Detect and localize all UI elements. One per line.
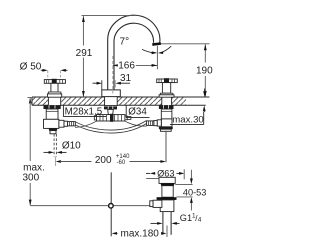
spout base cylinder (Ø34)	[102, 90, 121, 97]
label M28x1,5	[63, 105, 106, 117]
spout riser tube	[108, 15, 160, 90]
svg-text:40-53: 40-53	[183, 188, 207, 198]
svg-text:7°: 7°	[120, 37, 130, 48]
pull rod line	[110, 172, 112, 236]
svg-text:Ø 50: Ø 50	[20, 61, 42, 72]
dimension 31	[93, 56, 132, 94]
svg-text:+140: +140	[116, 154, 130, 160]
center shank neck	[108, 109, 114, 114]
center shank locknut	[104, 106, 117, 109]
dimension 166	[113, 59, 158, 71]
right valve below deck: locknut	[159, 105, 174, 109]
right valve outlet nozzle (pointing left)	[147, 120, 162, 126]
basin bottom line	[177, 196, 193, 198]
svg-text:190: 190	[196, 66, 213, 77]
label G 1 1/4	[151, 213, 202, 225]
flexible connection hoses	[75, 121, 147, 134]
right cross handle	[157, 78, 178, 97]
svg-text:M28x1,5: M28x1,5	[65, 106, 103, 117]
svg-text:Ø63: Ø63	[157, 168, 174, 178]
left valve bottom fitting	[49, 128, 57, 133]
waste clamping nut	[157, 197, 177, 200]
spout outlet aerator	[152, 44, 161, 45]
dimension diameter 63	[146, 168, 184, 179]
dimension 200 +140/-60	[56, 154, 166, 166]
svg-text:Ø34: Ø34	[128, 107, 147, 118]
svg-text:-60: -60	[117, 160, 126, 166]
waste flange	[159, 177, 175, 185]
waste body	[162, 186, 173, 198]
basin top line	[175, 183, 192, 185]
label diameter 34	[126, 105, 149, 117]
dimension 190	[161, 44, 213, 97]
spout shank through deck	[105, 96, 118, 105]
right valve elbow	[161, 119, 172, 127]
svg-text:G1: G1	[180, 213, 192, 223]
left valve body	[46, 109, 58, 119]
svg-text:291: 291	[76, 48, 93, 59]
waste lower body and side outlet	[150, 200, 174, 212]
left valve elbow	[44, 119, 59, 128]
dimension diameter 10	[44, 140, 82, 154]
center tee manifold	[94, 114, 131, 122]
waste reference line	[30, 205, 149, 207]
right valve body	[161, 109, 172, 119]
dimension 291	[76, 16, 134, 97]
svg-text:max.30: max.30	[172, 115, 203, 126]
left valve shank through deck	[48, 96, 60, 105]
svg-text:max.180: max.180	[121, 229, 160, 240]
label max.30 deck thickness	[170, 89, 206, 126]
countertop deck hatched section	[32, 97, 210, 105]
svg-text:31: 31	[120, 73, 132, 84]
junction node	[109, 204, 114, 209]
7 degree outlet angle callout	[120, 37, 172, 70]
svg-text:300: 300	[22, 173, 39, 184]
svg-text:166: 166	[118, 60, 135, 71]
dimension 40-53	[183, 170, 207, 211]
right valve axis line	[165, 131, 167, 162]
right valve shank through deck	[162, 96, 172, 105]
svg-text:4: 4	[198, 217, 202, 224]
right valve bottom fittings	[159, 127, 173, 132]
left handle diameter 50 extension lines	[48, 71, 61, 80]
dimension diameter 50	[20, 61, 68, 72]
svg-text:200: 200	[95, 155, 112, 166]
waste tailpipe	[163, 212, 171, 235]
left supply pipe diameter 10 (dashed)	[54, 134, 56, 166]
svg-text:Ø10: Ø10	[62, 140, 81, 151]
left valve below deck: locknut	[44, 105, 61, 109]
dimension max.300	[22, 98, 44, 206]
dimension max.180	[112, 226, 167, 240]
left cross handle	[44, 79, 65, 97]
left valve outlet nozzle	[59, 120, 75, 127]
